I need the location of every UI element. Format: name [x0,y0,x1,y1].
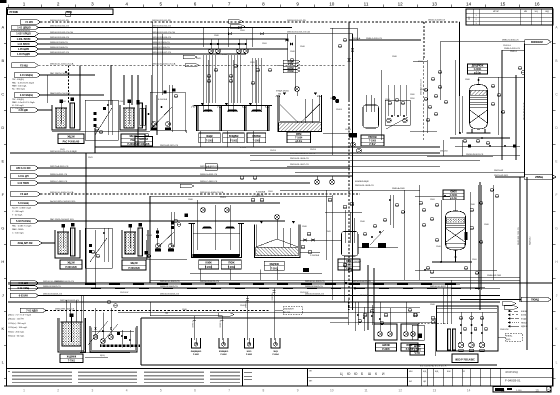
svg-text:9: 9 [296,1,299,6]
svg-text:T : 40 mg/L: T : 40 mg/L [12,214,23,216]
svg-text:DN80-SL: DN80-SL [272,293,274,300]
G-left dosing column [71,228,76,256]
svg-text:ЭЩЭ: ЭЩЭ [273,351,278,353]
svg-text:PFDИК: PFDИК [10,10,19,14]
svg-text:DN65: DN65 [196,58,201,60]
svg-text:ЖЦЭИ: ЖЦЭИ [130,263,137,265]
mid bottom sump MB2 [401,324,418,340]
svg-text:C : 100 mg/L: C : 100 mg/L [12,232,25,234]
basin floor row1 [197,130,270,132]
svg-text:DN50-C-4002-CS: DN50-C-4002-CS [200,181,218,183]
svg-text:K: K [1,326,4,331]
svg-text:DN50: DN50 [430,199,435,201]
svg-text:ШЭИШФФЩЖ: ШЭИШФФЩЖ [355,180,369,183]
row2 clarifier BB [254,224,300,257]
svg-text:SS(out) : 60 mg/L: SS(out) : 60 mg/L [8,335,25,338]
svg-text:DN50: DN50 [262,43,267,45]
svg-text:φ1.2m: φ1.2m [450,198,457,200]
svg-text:DN100-SL-3008-CS: DN100-SL-3008-CS [355,185,374,187]
V1 underline [450,137,510,139]
svg-text:DN150-W-3011: DN150-W-3011 [494,175,509,177]
svg-text:F3 ШЭ: F3 ШЭ [20,193,28,196]
svg-text:7: 7 [228,1,231,6]
svg-text:P-6002: P-6002 [220,354,226,356]
valve train row2 [304,239,307,242]
right edge flag F2 [495,176,524,178]
room outline bottom [140,318,142,365]
svg-text:φ2.0m: φ2.0m [474,72,481,74]
svg-text:DN65: DN65 [326,231,331,233]
dosing connect line [52,130,150,132]
skid manifold [92,330,134,332]
svg-text:DN80-W-1005-CS: DN80-W-1005-CS [50,42,68,44]
reactor V2 [446,211,466,250]
svg-text:B: B [1,58,4,63]
skid label box [135,137,153,147]
svg-text:DN80: DN80 [484,224,489,226]
svg-text:P-6004: P-6004 [272,353,279,356]
svg-text:DN100: DN100 [345,129,351,131]
instrument pairs [207,74,211,78]
svg-text:12: 12 [398,1,404,6]
svg-text:DN200-W-6010-CS: DN200-W-6010-CS [200,281,219,283]
legend flag stack [283,60,300,63]
svg-text:NaOH : 0.3В3 5 kg/h: NaOH : 0.3В3 5 kg/h [12,208,32,210]
svg-text:DN100-W-1003-CS-CA: DN100-W-1003-CS-CA [50,31,73,34]
svg-text:DN80: DN80 [430,304,435,306]
svg-text:DN100-W-3012-CS: DN100-W-3012-CS [524,102,526,120]
svg-text:DN80-SL: DN80-SL [220,320,222,327]
svg-text:DN100: DN100 [336,109,342,111]
svg-text:DN150-W-1015-CS: DN150-W-1015-CS [160,145,179,147]
svg-text:ПЖ : ФБ/ДЦ: ПЖ : ФБ/ДЦ [12,98,24,101]
svg-text:B-3001A/B: B-3001A/B [158,98,168,101]
svg-text:SS(in) : 200 mg/L: SS(in) : 200 mg/L [8,331,25,333]
transfer skid middle [85,100,118,140]
svg-text:DN80-G-3010-CS: DN80-G-3010-CS [502,39,519,41]
svg-text:Ш: Ш [368,372,371,376]
svg-text:ПЖ : ФБ/ДЦ: ПЖ : ФБ/ДЦ [12,78,24,81]
PS pumps [458,342,464,348]
basin water marks [201,103,204,105]
legend header box [8,9,114,15]
svg-text:13: 13 [433,389,437,393]
svg-text:МРЖ: МРЖ [296,134,302,136]
svg-text:DN80-RW: DN80-RW [500,329,509,331]
svg-text:P-6005: P-6005 [382,349,390,351]
svg-text:6-03 ИН: 6-03 ИН [19,295,28,298]
MB riser valves [357,314,360,316]
svg-text:11: 11 [364,389,368,393]
svg-text:DN40: DN40 [360,221,365,223]
svg-text:ЩЮЦ: ЩЮЦ [100,355,105,357]
svg-text:DN100: DN100 [252,196,258,198]
svg-text:1:100: 1:100 [516,390,522,392]
svg-text:DN80: DN80 [188,199,193,201]
svg-text:NaOH DN25-CH-5001 30%: NaOH DN25-CH-5001 30% [50,201,76,203]
V1 right instruments [491,84,495,88]
dosing unit left label [58,134,84,144]
left cluster verticals row2 [149,196,151,283]
svg-text:P-1008A/B: P-1008A/B [138,143,150,146]
aerator A2 [275,215,280,220]
svg-text:ШЮЖ: ШЮЖ [414,346,422,348]
svg-text:1: 1 [23,389,25,393]
svg-text:5: 5 [160,1,163,6]
pump station PS box [437,306,499,351]
svg-text:A1: A1 [547,388,549,391]
svg-text:16: 16 [534,1,540,6]
svg-text:DN80-W-6002-CS: DN80-W-6002-CS [43,286,61,288]
svg-text:DN100-A: DN100-A [352,37,361,40]
svg-text:10: 10 [330,389,334,393]
basin rims row1 [194,105,273,107]
svg-text:DN40: DN40 [436,246,441,248]
svg-text:DN80-S-4001-CS: DN80-S-4001-CS [200,174,218,176]
svg-text:DN80-W-1006-CS: DN80-W-1006-CS [50,47,68,49]
V4 right mini cluster [371,236,373,239]
PS side box [412,325,424,340]
svg-text:2-03 ДЖ: 2-03 ДЖ [19,109,29,112]
svg-text:DN150-W: DN150-W [300,292,309,294]
svg-text:10: 10 [329,1,335,6]
mid bottom sump MB1 [374,324,397,340]
svg-text:P-3001A/B: P-3001A/B [256,191,266,194]
svg-text:DN150-W-3005-CS ФМРЖ: DN150-W-3005-CS ФМРЖ [290,152,315,155]
svg-text:PAM : 0.1m3 0.1% 2kg/h: PAM : 0.1m3 0.1% 2kg/h [12,101,36,104]
svg-text:H : 100 mg/L: H : 100 mg/L [12,105,25,107]
dosing unit left: mix tank [56,108,66,128]
svg-text:DN100-SL-1010-CS-CA: DN100-SL-1010-CS-CA [50,62,74,65]
svg-text:DN80-RW-7005: DN80-RW-7005 [487,275,502,277]
svg-text:ЮФДБЖ: ЮФДБЖ [229,135,239,138]
basin outlet connectors [199,131,201,147]
svg-text:ЖЦЭИ: ЖЦЭИ [67,137,74,139]
svg-text:7-01 ИДЮ: 7-01 ИДЮ [26,310,38,313]
svg-text:DN100-W: DN100-W [360,295,369,297]
svg-text:P-5002A/B: P-5002A/B [352,260,362,263]
svg-text:DN100-SL-3006-CS: DN100-SL-3006-CS [290,158,309,160]
svg-text:PAM : 5В3/h: PAM : 5В3/h [12,228,24,231]
dosing flag G2 [10,219,39,224]
svg-text:B-301: B-301 [206,167,212,169]
svg-text:E: E [555,160,557,164]
svg-text:2-01 ЖЦКЦ: 2-01 ЖЦКЦ [20,74,33,77]
svg-text:ЮЖЮ: ЮЖЮ [450,192,457,194]
lift pumps row [209,49,214,54]
svg-text:DN100-W-1003-CS-CA: DN100-W-1003-CS-CA [287,31,310,34]
chemical dosing flags C1 [14,73,41,78]
svg-text:DN100-G: DN100-G [503,45,512,47]
svg-text:DN80-RW-7001-CS: DN80-RW-7001-CS [55,309,75,311]
svg-text:Na : 300 mg/L: Na : 300 mg/L [12,89,26,91]
svg-text:1: 1 [23,1,26,6]
sludge dashed box [283,307,302,315]
mixing tank T4 [62,322,81,346]
svg-text:ИВ: ИВ [524,11,528,13]
svg-text:V=50: V=50 [415,353,421,355]
dosing unit right: containment [120,105,146,130]
svg-text:P-6001: P-6001 [193,354,199,356]
misc instrument bubbles [251,198,255,202]
svg-text:DN80ФКМ: DN80ФКМ [531,41,543,44]
svg-text:pH(in) : 7.0~7.5 6~9 kg/h: pH(in) : 7.0~7.5 6~9 kg/h [8,315,32,317]
top right corner piping [330,27,357,29]
svg-text:ДШ: ДШ [469,16,471,19]
dosing unit right label [121,134,145,146]
vessel V4 dosing tank [342,232,359,257]
svg-text:DN150: DN150 [330,98,336,100]
dosing unit right: mix tank [124,108,134,128]
svg-text:PAM : 100 mg/L: PAM : 100 mg/L [12,84,28,87]
T4 label box [60,354,83,363]
V4 feed loop verticals [325,190,327,260]
aerator pair mid [315,180,320,185]
svg-text:ЭЮЖ: ЭЮЖ [287,70,294,73]
svg-text:7: 7 [228,389,230,393]
svg-text:PAC : 0.5В3 7.5 kg/h: PAC : 0.5В3 7.5 kg/h [12,225,32,228]
svg-text:1-04 ВЮЮ: 1-04 ВЮЮ [17,43,30,46]
svg-text:ЭБВБЖ: ЭБВБЖ [252,136,262,138]
svg-text:ЖЦЭИ: ЖЦЭИ [67,263,74,265]
svg-text:DN80: DN80 [302,226,307,228]
svg-text:F2 ИШ: F2 ИШ [20,64,28,67]
row2 underline [190,273,322,275]
svg-text:ШД: ШД [545,11,549,13]
lines mid right [250,154,520,156]
dosing unit left: containment [52,105,80,130]
right-side long verticals [501,50,503,160]
svg-text:φ6.0m: φ6.0m [295,141,302,143]
BB center pipe [276,219,278,239]
revision table [466,9,553,25]
svg-text:15: 15 [500,1,506,6]
svg-text:P-2003: P-2003 [118,101,124,103]
sludge pump skid mid-left [137,75,139,147]
svg-text:ЮИЖ: ЮИЖ [206,263,213,265]
svg-text:DN150-W-1002-CS: DN150-W-1002-CS [152,26,171,28]
svg-text:ЮЦШЮДЩШИШЮИ: ЮЦШЮДЩШИШЮИ [11,30,31,32]
title small cell marks [244,372,252,374]
svg-text:ФФЩЖ DN100: ФФЩЖ DN100 [276,90,289,93]
svg-text:PAM DN25-CH-2002: PAM DN25-CH-2002 [50,92,71,95]
skid pumps [151,121,156,126]
svg-text:ШЮШ: ШЮШ [521,311,527,313]
svg-text:DN80-G-3016-CS: DN80-G-3016-CS [366,38,383,40]
svg-text:5-02 PACЖЦ: 5-02 PACЖЦ [16,220,31,223]
svg-text:КЭЖЩШЭ: КЭЖЩШЭ [219,351,229,353]
header drop pipes mid-left [151,22,153,100]
svg-text:DN50: DN50 [418,61,423,63]
svg-text:P-3002A/B: P-3002A/B [310,254,320,257]
svg-text:DN50: DN50 [268,191,273,193]
svg-text:T-1003: T-1003 [253,141,261,143]
svg-text:DN100-SL-4005-CS-CA: DN100-SL-4005-CS-CA [50,191,74,194]
svg-text:DN150-W: DN150-W [494,170,503,172]
main vertical headers [348,22,350,100]
svg-text:L: L [556,361,558,365]
row2 label boxes [199,260,219,269]
right mid line y277 [430,276,520,278]
revision strip table [12,371,72,373]
svg-text:НЮ 3-01 ФИ: НЮ 3-01 ФИ [16,167,31,170]
svg-text:DN80-W-1006-CS: DN80-W-1006-CS [152,47,170,49]
svg-text:T-7001: T-7001 [68,361,76,363]
MB feed verticals [442,288,444,324]
biofilter tower V1 [470,85,488,130]
svg-text:5-01 ШЩ: 5-01 ШЩ [18,202,29,205]
svg-text:P-6003: P-6003 [246,354,252,356]
svg-text:DN80-RW-7002-CS: DN80-RW-7002-CS [518,227,520,245]
svg-text:P-2001: P-2001 [60,101,66,103]
svg-text:DN100: DN100 [420,89,426,91]
svg-text:DN80-W-1005-CS: DN80-W-1005-CS [152,42,170,44]
svg-text:8: 8 [262,1,265,6]
mid flags E group [10,166,39,171]
dosing unit right: dosing column [138,103,143,128]
dosing unit left: dosing column [70,103,75,128]
svg-text:ЖВЭЦ: ЖВЭЦ [506,336,513,338]
svg-text:F: F [556,193,558,197]
svg-text:PAC DN25-CH-5002 10%: PAC DN25-CH-5002 10% [50,218,74,221]
dosing unit G-right containment [122,230,148,258]
small outlet flags [502,302,516,305]
svg-text:DN100: DN100 [240,305,246,307]
svg-text:T-1005: T-1005 [369,140,377,142]
svg-text:ИВБЩ: ИВБЩ [535,176,543,179]
long collection line [10,152,440,154]
svg-text:DN80-A-3009: DN80-A-3009 [392,187,406,190]
svg-text:4: 4 [125,1,128,6]
V2 instruments left [419,201,423,205]
small pentagon flags top [228,20,243,23]
svg-text:DN100-SL-6012: DN100-SL-6012 [430,286,447,288]
svg-text:6: 6 [194,389,196,393]
svg-text:2-02 ЖЦКЦ: 2-02 ЖЦКЦ [20,94,33,97]
feed distribution cluster [202,28,204,48]
svg-text:DN100-A-3015-CS: DN100-A-3015-CS [420,78,423,95]
svg-text:12: 12 [398,389,402,393]
row2 pumps above [201,208,206,213]
containment basin U1 [58,318,86,352]
basin stub hatch ticks [191,106,192,108]
svg-text:A: A [1,25,4,30]
svg-text:14: 14 [467,389,471,393]
svg-text:DN100-SL-4005-CS-CA: DN100-SL-4005-CS-CA [200,191,224,194]
G-right label [122,260,146,270]
svg-text:DN150-W-6011-CS: DN150-W-6011-CS [352,281,371,283]
svg-text:DN80: DN80 [290,51,295,53]
svg-text:ЖВЭ P-7001A/B/C: ЖВЭ P-7001A/B/C [455,359,475,362]
svg-text:ЖЦЭМЖ: ЖЦЭМЖ [67,356,77,358]
svg-text:P-5003: P-5003 [146,235,152,237]
svg-text:DN100-W-1004-CS: DN100-W-1004-CS [50,37,69,39]
svg-text:DN100-W-6003-CS: DN100-W-6003-CS [160,294,179,296]
svg-text:1-02Y КРЦЮ: 1-02Y КРЦЮ [16,33,31,36]
svg-text:ЮК 1:100 ИЭ A1 М 1 Ж Ш 1 Ж: ЮК 1:100 ИЭ A1 М 1 Ж Ш 1 Ж [420,365,447,368]
svg-text:DN100: DN100 [220,197,226,199]
svg-text:DN65: DN65 [222,54,227,56]
dosing flag G1 [10,201,39,206]
svg-text:T-2001: T-2001 [205,267,213,269]
svg-text:J: J [2,293,4,298]
svg-text:МЦРЖЖ: МЦРЖЖ [270,264,280,266]
svg-text:1-03L ВЮЮ: 1-03L ВЮЮ [17,38,31,41]
svg-text:5: 5 [160,389,162,393]
svg-text:3: 3 [92,389,94,393]
svg-text:DN50: DN50 [410,98,415,100]
chemical dosing flags C2 [14,93,41,98]
mid pump skid row2 [170,212,172,247]
svg-text:DN100-SL-1010-CS-CA: DN100-SL-1010-CS-CA [152,62,176,65]
svg-text:DN200-W-6010-CS: DN200-W-6010-CS [55,281,74,283]
svg-text:ИДЮШШ: ИДЮШШ [530,236,532,245]
svg-text:D: D [1,125,4,130]
svg-text:ИШ: ИШ [409,371,412,373]
svg-text:DN150-W-1002-CS: DN150-W-1002-CS [50,26,69,28]
svg-text:DN80: DN80 [392,56,397,58]
svg-text:ФШЭШЮН: ФШЭШЮН [284,308,294,311]
svg-text:DN150-W: DN150-W [120,292,129,294]
svg-text:DN125-A-3001-CS: DN125-A-3001-CS [50,165,69,168]
svg-text:DN100-W-1003-CS-CA: DN100-W-1003-CS-CA [152,31,175,34]
right bottom flag F3 [521,297,551,302]
basin weirs row1 [203,110,213,112]
svg-text:DN200-W-1001-PE: DN200-W-1001-PE [50,20,69,22]
svg-text:DN150: DN150 [310,149,316,151]
svg-text:8: 8 [263,389,265,393]
svg-text:9: 9 [297,389,299,393]
svg-text:ШЭНБЭ: ШЭНБЭ [139,139,148,141]
svg-text:13: 13 [432,1,438,6]
svg-text:H: H [1,259,4,264]
title block [243,369,554,387]
svg-text:ШЭЭЖ: ШЭЭЖ [382,345,391,347]
svg-text:4-01L ДП: 4-01L ДП [18,175,29,178]
V1 riser to flare [478,77,480,85]
dosing pump skid [90,326,137,352]
PS manifold [437,311,497,313]
svg-text:DN80: DN80 [465,79,470,81]
svg-text:DN40: DN40 [300,46,305,48]
bottom skid extras [80,296,82,353]
svg-text:ДЮЦРЮЖ: ДЮЦРЮЖ [472,66,485,68]
svg-text:ШЭЭ: ШЭЭ [247,351,252,353]
skid mini components [121,330,123,348]
svg-text:Ю: Ю [354,372,358,376]
svg-text:2: 2 [57,1,60,6]
reuse water flag [20,308,46,313]
svg-text:T-2003: T-2003 [271,268,279,270]
svg-text:ЭКЩ N/P ЭЖ: ЭКЩ N/P ЭЖ [18,242,34,245]
svg-text:К: К [375,372,377,376]
trunk lines lower [150,279,520,281]
svg-text:DN100-W-1007-CS: DN100-W-1007-CS [152,52,171,54]
svg-text:11: 11 [364,1,369,6]
svg-text:P-5001A/B: P-5001A/B [65,266,77,269]
dosing unit G-left containment [55,230,80,258]
svg-text:4-02 ПФЮ: 4-02 ПФЮ [17,182,29,185]
svg-text:(ЦН): (ЦН) [506,339,511,341]
basin drop pipes into basins [202,60,204,112]
svg-text:C-6001: C-6001 [450,195,458,197]
BA sludge band [193,254,240,257]
svg-text:ЭЦ: ЭЦ [534,11,538,13]
flag acid [10,108,39,113]
svg-text:DN80-G-3010-CS: DN80-G-3010-CS [504,48,521,50]
svg-text:DN50: DN50 [472,259,477,261]
bottom trunk flags [10,281,39,286]
